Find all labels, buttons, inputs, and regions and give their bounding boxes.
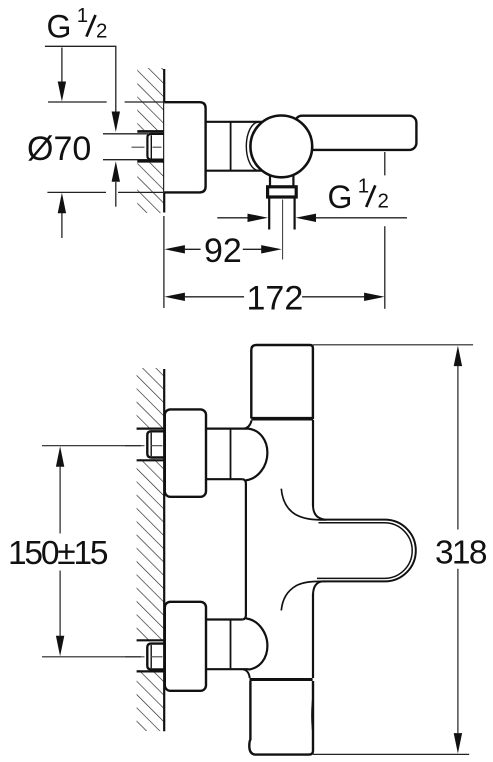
svg-text:1: 1	[358, 174, 369, 197]
fillet above bottom joint	[243, 669, 250, 678]
top inlet bulge on body	[246, 429, 268, 481]
bottom escutcheon (front)	[165, 602, 206, 691]
lever handle	[295, 116, 416, 150]
bottom inlet centerline dashes	[125, 656, 145, 658]
inlet centerline dashes	[132, 146, 145, 148]
bottom inlet nut	[147, 644, 165, 670]
wall holes (white)	[136, 430, 166, 459]
cylinder seam	[230, 123, 232, 171]
body right edge below spout	[312, 594, 314, 678]
outlet collar	[268, 187, 297, 197]
wall face line	[163, 69, 165, 213]
G 1/2 lower arrow	[112, 161, 120, 182]
bottom connector cylinder (front)	[206, 618, 243, 620]
wall face line (front view)	[163, 369, 165, 731]
dimension 318	[313, 344, 473, 346]
bottom cap crescent on right edge	[311, 689, 313, 742]
dia70 arrows	[61, 48, 63, 83]
top inlet centerline dashes	[125, 445, 145, 447]
bottom cap joint thick bar	[250, 678, 313, 681]
connector cylinder (side view)	[206, 121, 266, 123]
escutcheon flange (side view)	[164, 102, 205, 192]
body right edge above spout	[312, 420, 314, 506]
outlet G1/2 dimension arrows	[217, 217, 248, 219]
mixer body circle	[250, 115, 312, 177]
svg-text:2: 2	[378, 190, 389, 213]
svg-text:1: 1	[77, 4, 88, 27]
wall hatching (front view)	[137, 368, 165, 731]
spout upper sweep curve	[281, 489, 326, 520]
top connector cylinder (front)	[206, 428, 249, 430]
inlet pipe extension lines (thin)	[103, 133, 148, 135]
svg-text:G: G	[328, 179, 353, 215]
svg-text:318: 318	[435, 535, 488, 572]
bottom cap of body	[249, 681, 313, 755]
dia70 extension lines	[48, 101, 107, 103]
bottom inlet bulge on body	[246, 618, 268, 669]
spout lower sweep curve	[281, 581, 326, 610]
housing end-cap arc	[246, 122, 258, 170]
svg-text:150±15: 150±15	[8, 535, 109, 572]
svg-text:Ø70: Ø70	[27, 130, 91, 168]
extension line (wall face, for 92 and 172)	[163, 216, 165, 308]
dimension 92	[164, 245, 185, 253]
outlet neck below body	[269, 172, 271, 187]
inlet hole thick bars through wall	[137, 130, 164, 133]
svg-text:2: 2	[96, 19, 107, 42]
dimension 172	[164, 293, 185, 301]
fillet below top joint	[244, 421, 252, 429]
top escutcheon (front)	[165, 409, 206, 496]
inlet nut (side view)	[147, 134, 165, 160]
spout U outer	[313, 505, 416, 596]
outlet centerline	[282, 200, 284, 260]
top cap of body	[251, 345, 313, 419]
body left edge between inlets	[243, 479, 246, 619]
extension line right (for 172)	[384, 226, 386, 309]
outlet pipe	[268, 198, 270, 230]
spout U inner line	[317, 523, 412, 579]
dimension 150 +-15	[42, 445, 141, 447]
G1/2 mid leader segment	[384, 152, 386, 175]
top cap joint thick bar	[251, 417, 313, 421]
svg-text:172: 172	[247, 280, 304, 318]
wall hatching (side view)	[137, 68, 164, 213]
svg-text:G: G	[47, 9, 72, 45]
wall hole (white gap for inlet pipe)	[136, 133, 165, 161]
top inlet nut	[147, 431, 165, 457]
top inlet hole bars	[137, 428, 165, 430]
G 1/2 top leader: underline and arrow to pipe	[45, 46, 116, 111]
svg-text:92: 92	[204, 232, 242, 270]
bottom inlet hole bars	[137, 639, 165, 641]
